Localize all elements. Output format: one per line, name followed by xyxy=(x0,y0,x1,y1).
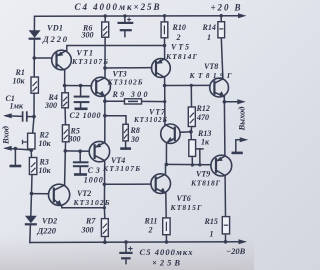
transistor VT8 KT819G (NPN) xyxy=(210,78,229,97)
svg-text:КТ3107Б: КТ3107Б xyxy=(71,57,108,66)
wire VT1 collector node to VT3 base xyxy=(65,85,92,87)
svg-text:+20 В: +20 В xyxy=(211,3,241,13)
wire R14 leads / VT8 collector xyxy=(220,16,222,22)
wire C2 ground lead xyxy=(80,103,82,108)
wire R12 top lead xyxy=(190,85,192,107)
svg-text:КТ814Г: КТ814Г xyxy=(165,52,197,61)
wire R9 right lead xyxy=(142,100,165,102)
ground (R8) xyxy=(120,147,131,150)
svg-text:R10: R10 xyxy=(172,23,186,32)
svg-text:2: 2 xyxy=(148,226,153,235)
transistor VT6 KT815G (NPN) xyxy=(151,174,171,194)
wire VT4 collector column xyxy=(103,160,105,207)
svg-text:VT6: VT6 xyxy=(177,194,191,203)
svg-text:С5 4000мкх: С5 4000мкх xyxy=(140,247,194,257)
wire VT8 emitter to output node xyxy=(223,97,225,102)
svg-text:1000: 1000 xyxy=(84,176,103,185)
resistor R6 300 xyxy=(102,22,109,37)
wire VT2 collector column xyxy=(64,151,67,185)
svg-text:2: 2 xyxy=(176,33,181,42)
resistor R4 300 xyxy=(62,93,69,108)
wire R7 top lead xyxy=(103,208,105,219)
output arrowhead xyxy=(237,99,246,104)
wire node B down to VT7 collector xyxy=(164,86,166,125)
ground (output common) xyxy=(232,152,243,155)
ground (input) xyxy=(10,165,22,168)
svg-text:R15: R15 xyxy=(204,217,218,226)
svg-text:КТ819Г: КТ819Г xyxy=(189,71,232,80)
resistor R9 300 (horizontal) xyxy=(125,99,142,104)
svg-text:С4 4000мк×25В: С4 4000мк×25В xyxy=(75,2,160,12)
svg-text:1мк: 1мк xyxy=(10,102,24,111)
wire VT9 collector to R15 xyxy=(224,175,226,216)
svg-text:VT5: VT5 xyxy=(171,43,189,52)
svg-text:1: 1 xyxy=(207,33,211,42)
svg-text:Вход: Вход xyxy=(0,125,10,145)
ground (C2) xyxy=(75,108,88,111)
wire R15 bottom lead xyxy=(225,234,227,242)
transistor VT7 KT3102B (NPN, mirrored) xyxy=(161,124,180,143)
capacitor C3 xyxy=(73,162,89,166)
svg-text:30: 30 xyxy=(130,135,139,144)
wire +20V top rail xyxy=(35,15,244,18)
svg-text:R11: R11 xyxy=(144,217,158,226)
terminal arrows xyxy=(3,13,248,244)
wire C5 bottom stub xyxy=(125,259,127,264)
resistor R10 2 xyxy=(161,22,168,38)
svg-text:КТ818Г: КТ818Г xyxy=(190,178,220,187)
svg-text:С3: С3 xyxy=(88,166,100,175)
wire output node down to VT9 emitter xyxy=(223,102,226,156)
svg-text:10к: 10к xyxy=(13,77,26,86)
svg-text:VD2: VD2 xyxy=(42,217,57,226)
wire input coupling (C1 to column) xyxy=(27,116,34,118)
svg-text:R9 300: R9 300 xyxy=(112,90,148,99)
wire VD1 top lead xyxy=(33,16,35,30)
wire VT6 emitter to R11 xyxy=(165,193,167,218)
svg-text:×25В: ×25В xyxy=(152,257,180,267)
wire output terminal xyxy=(224,101,242,103)
wire R10 leads xyxy=(164,16,166,22)
transistor VT2 KT3102B (NPN) xyxy=(49,184,70,206)
wire input top terminal xyxy=(6,115,23,118)
wire VT6 collector xyxy=(165,164,167,174)
transistor VT3 KT3102B (NPN) xyxy=(91,77,110,96)
wire C4 bottom stub xyxy=(124,31,126,37)
wire R7 bottom lead xyxy=(104,237,106,243)
wire node B to VT8 base xyxy=(165,84,210,86)
paper shading bottom xyxy=(0,235,254,270)
svg-text:VT9: VT9 xyxy=(196,170,210,179)
wire input bottom terminal xyxy=(6,148,32,150)
wire R11 bottom lead xyxy=(165,235,167,242)
wire R4-R5 column xyxy=(64,86,66,93)
+20V rail arrowhead xyxy=(238,13,247,18)
wire VT1 base xyxy=(34,57,52,59)
wire x105 column down to VT4 emitter xyxy=(104,101,106,143)
transistor VT1 KT3107B (PNP) xyxy=(52,50,72,70)
wire R13 bottom lead xyxy=(191,156,193,165)
transistor VT9 KT818G (PNP) xyxy=(211,155,232,176)
output common arrowhead xyxy=(240,137,249,142)
wire VT7 emitter to VT6 collector node xyxy=(165,143,167,165)
wire VT3 emitter node to R9 xyxy=(104,96,106,101)
wire -20V bottom rail xyxy=(30,241,244,244)
wire left bias column xyxy=(31,40,34,158)
input top arrowhead xyxy=(3,113,12,118)
resistor R1 10k xyxy=(31,77,38,93)
resistor R12 470 xyxy=(188,107,195,127)
wire R13 trimmer tap xyxy=(197,148,203,150)
transistor VT4 KT3107B (PNP) xyxy=(89,141,109,161)
svg-text:VD1: VD1 xyxy=(47,24,63,33)
wire VD2 bottom lead xyxy=(29,225,32,242)
svg-text:300: 300 xyxy=(81,31,94,40)
transistor VT5 KT814G (PNP) xyxy=(152,59,171,78)
capacitor C1 xyxy=(23,111,27,121)
wire VT6 base xyxy=(104,183,151,185)
wire VT2 emitter to R7 node xyxy=(62,206,105,208)
wire C3 ground lead xyxy=(79,167,81,174)
svg-text:КТ3102Б: КТ3102Б xyxy=(107,77,143,86)
svg-text:КТ3107Б: КТ3107Б xyxy=(102,164,140,173)
capacitor C5 (polar) xyxy=(119,246,132,258)
svg-text:470: 470 xyxy=(196,113,209,122)
-20V rail arrowhead xyxy=(239,239,248,244)
wire VT5 collector to VT8 base node xyxy=(164,77,166,85)
svg-text:10к: 10к xyxy=(39,139,52,148)
svg-text:С2 1000: С2 1000 xyxy=(70,111,101,120)
resistor R11 2 xyxy=(163,218,170,235)
ground bars xyxy=(10,109,243,175)
capacitor C4 (polar) xyxy=(118,18,134,31)
svg-text:300: 300 xyxy=(68,135,81,144)
wire C3 hang lead xyxy=(79,151,81,161)
svg-text:VT2: VT2 xyxy=(77,189,91,198)
svg-text:R8: R8 xyxy=(130,126,140,135)
svg-text:300: 300 xyxy=(44,101,57,110)
svg-text:10к: 10к xyxy=(39,166,52,175)
wire VT1 emitter rail to node A xyxy=(67,46,165,51)
wire C4 top lead xyxy=(124,16,126,22)
wire VT5 emitter top xyxy=(164,46,166,60)
wire output common terminal xyxy=(236,140,245,153)
wire C2 hang lead xyxy=(80,86,82,96)
wire VT6 collector node to VT9 base xyxy=(166,163,210,165)
wire R6 column (top rail to VT3 collector) xyxy=(104,16,106,22)
wire R8 ground lead xyxy=(125,141,127,148)
svg-text:Д220: Д220 xyxy=(42,34,68,44)
diode VD1 Д220 xyxy=(29,30,41,39)
resistor R5 300 xyxy=(62,125,69,142)
resistor R7 300 xyxy=(101,219,108,237)
svg-text:КТ3102Б: КТ3102Б xyxy=(73,198,110,207)
wire R13 top lead xyxy=(190,132,193,140)
wire VT5 base (from VT3 collector node) xyxy=(105,67,152,69)
svg-text:КТ815Г: КТ815Г xyxy=(170,203,202,212)
svg-text:R12: R12 xyxy=(196,104,210,113)
wire node R5/C3/VT4 base xyxy=(65,150,89,152)
resistor R14 1 xyxy=(218,22,225,38)
resistor R15 1 xyxy=(222,217,229,234)
svg-text:−20В: −20В xyxy=(226,246,246,256)
svg-text:1к: 1к xyxy=(201,138,210,147)
capacitor C2 xyxy=(74,97,90,103)
svg-text:R7: R7 xyxy=(85,217,96,226)
svg-text:VT8: VT8 xyxy=(204,62,218,71)
wire R8 branch xyxy=(105,116,126,125)
ground (C3) xyxy=(74,173,87,176)
wire VT2 base xyxy=(32,193,49,195)
resistor R8 30 xyxy=(123,124,128,141)
svg-text:Выход: Выход xyxy=(237,106,247,132)
svg-text:R14: R14 xyxy=(202,23,216,32)
resistor R3 10k xyxy=(29,158,36,175)
svg-text:КТ3102Б: КТ3102Б xyxy=(133,116,168,124)
diode VD2 Д220 xyxy=(25,216,37,225)
resistor R13 1k xyxy=(189,140,196,157)
resistor R2 10k (trimmer) xyxy=(23,133,36,149)
svg-text:Д220: Д220 xyxy=(37,226,57,236)
svg-text:1: 1 xyxy=(210,230,214,239)
wire C5 top lead xyxy=(125,242,127,252)
input bottom arrowhead xyxy=(3,146,12,151)
svg-text:300: 300 xyxy=(81,226,94,235)
wire VT7 base xyxy=(180,131,191,134)
wire R12 to VT7 base node xyxy=(190,127,193,132)
wire VT1 collector column xyxy=(64,70,66,85)
wire input ground stem xyxy=(14,149,16,165)
